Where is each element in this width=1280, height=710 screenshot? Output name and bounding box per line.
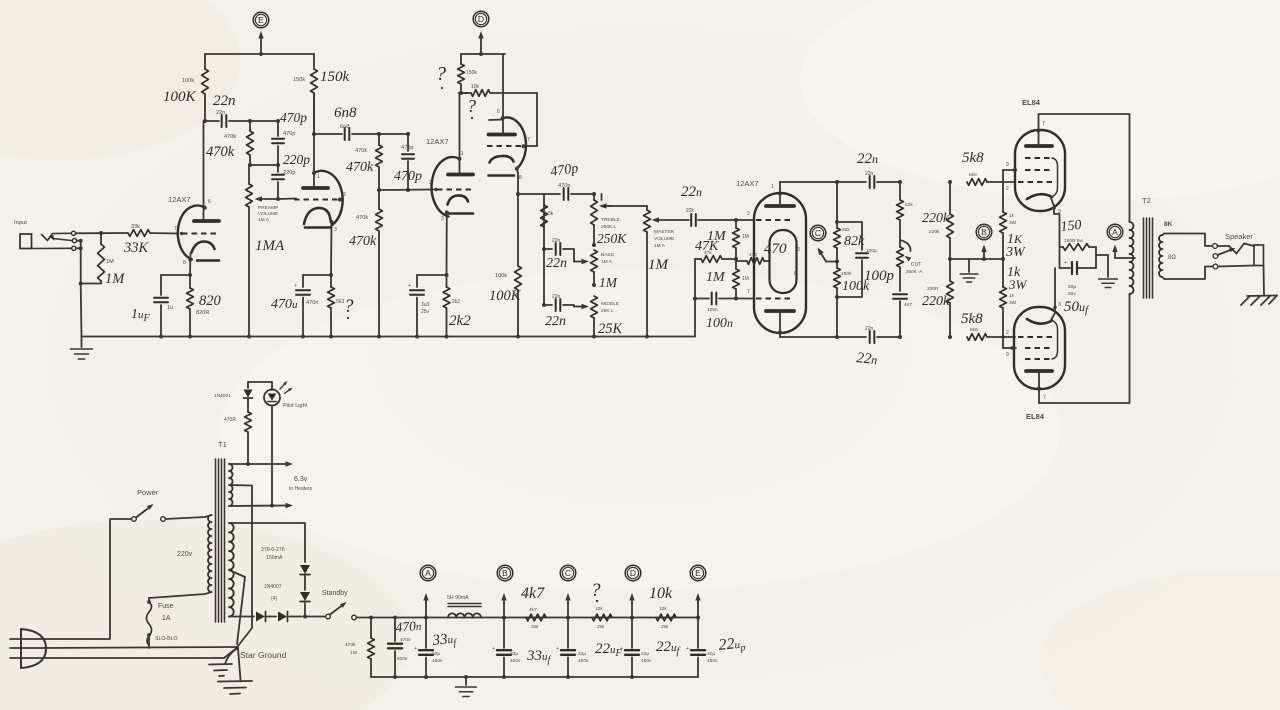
svg-text:5k: 5k <box>548 211 554 217</box>
label 220k printed <box>929 229 940 235</box>
tube V4 plate bottom <box>766 311 794 337</box>
tube V4 envelope <box>754 193 806 333</box>
resistor 10k V3b grid <box>461 90 537 146</box>
svg-text:22n: 22n <box>865 171 874 177</box>
label 100k printed2 <box>495 273 507 279</box>
node E filter circle <box>690 565 706 581</box>
mains plug <box>10 629 46 668</box>
ground symbol input <box>71 241 93 359</box>
svg-text:4k7: 4k7 <box>529 607 537 613</box>
label bass printed <box>601 252 614 265</box>
tube EL84 bottom grid <box>1006 330 1052 337</box>
label 5k8 handwritten2 <box>961 311 983 327</box>
label 6n8 handwritten <box>334 105 357 121</box>
potentiometer bass 1M <box>591 250 598 285</box>
svg-text:+: + <box>1064 260 1067 266</box>
svg-text:3W: 3W <box>1009 220 1017 226</box>
svg-text:B: B <box>981 227 987 237</box>
svg-text:12AX7: 12AX7 <box>168 195 191 204</box>
label 1k printed <box>1009 213 1017 226</box>
resistor 1M PI grid1 <box>733 220 740 259</box>
label 1MA handwritten <box>255 238 285 254</box>
label 470p handwritten <box>280 110 307 125</box>
label 470p handwritten2 <box>394 169 422 184</box>
label 47K handwritten <box>695 239 719 254</box>
svg-text:22n: 22n <box>681 184 702 200</box>
node A circle <box>1107 224 1123 240</box>
svg-text:1A: 1A <box>162 615 171 622</box>
svg-text:150: 150 <box>1060 218 1082 235</box>
wire HT top tap <box>229 523 305 562</box>
speaker jack contacts <box>1213 244 1218 269</box>
svg-text:470p: 470p <box>394 169 422 184</box>
tube EL84 top suppressor <box>1025 158 1058 197</box>
label 4n7 printed <box>904 302 912 308</box>
switch standby <box>326 602 357 620</box>
label 22k printed <box>905 202 913 208</box>
tube V1 cathode <box>188 242 219 276</box>
svg-text:100k: 100k <box>841 271 852 277</box>
capacitor 1uF cathode V1 <box>154 275 168 339</box>
label 470n printed <box>294 283 318 306</box>
svg-text:+: + <box>408 283 411 289</box>
tube EL84 bottom envelope <box>1014 307 1065 389</box>
svg-text:Star Ground: Star Ground <box>240 650 287 660</box>
resistor 470k bleeder <box>368 616 375 678</box>
svg-text:1: 1 <box>461 151 464 157</box>
tube EL84 bottom suppressor <box>1025 321 1058 360</box>
tube V3a plate <box>448 93 473 175</box>
svg-text:470k: 470k <box>346 160 374 175</box>
label 22n handwritten <box>213 93 236 109</box>
label 33uF handwritten <box>431 631 458 652</box>
label 2k2 printed <box>452 299 460 305</box>
label 1M handwritten <box>105 271 125 287</box>
label middle printed <box>601 301 619 314</box>
svg-text:82k: 82k <box>842 227 850 233</box>
label 220k printed2 <box>927 286 939 292</box>
tube V2 grid <box>294 198 342 202</box>
label 22n printed4 <box>686 208 695 214</box>
label 25K handwritten <box>598 321 624 337</box>
label 22n printed3 <box>552 294 561 300</box>
transformer T1 label <box>218 440 227 449</box>
potentiometer master 1M <box>644 206 651 339</box>
tube V4 shared cathode <box>770 230 797 293</box>
svg-text:6n8: 6n8 <box>334 105 357 121</box>
svg-text:6.3v: 6.3v <box>294 476 308 483</box>
svg-text:450v: 450v <box>510 658 521 664</box>
svg-text:22µ: 22µ <box>641 651 649 657</box>
transformer T1 HT winding <box>229 523 234 616</box>
svg-text:470k: 470k <box>206 144 235 160</box>
svg-text:100K: 100K <box>489 288 522 304</box>
svg-text:1k: 1k <box>1009 213 1015 219</box>
node V1 plate junction <box>203 119 207 123</box>
svg-text:100k: 100k <box>182 78 194 84</box>
label 8ohm printed <box>1168 255 1176 261</box>
label master printed <box>654 229 675 249</box>
label 22n printed2 <box>552 238 561 244</box>
tube V3b pins <box>497 109 530 181</box>
resistor 10k filter1 <box>592 614 612 621</box>
svg-text:3W: 3W <box>1008 277 1028 292</box>
label 50u printed <box>1068 284 1076 297</box>
svg-text:50v: 50v <box>1068 291 1076 297</box>
svg-text:470k: 470k <box>355 148 367 154</box>
tube V3b grid <box>487 144 526 148</box>
svg-text:?: ? <box>436 63 446 85</box>
label power printed <box>137 488 159 497</box>
svg-text:470p: 470p <box>283 131 295 137</box>
label 470k handwritten3 <box>349 234 377 249</box>
tube V4 plate top <box>766 182 794 206</box>
svg-text:22n: 22n <box>216 110 225 116</box>
svg-text:150mA: 150mA <box>266 555 283 561</box>
svg-text:22n: 22n <box>552 294 561 300</box>
node V1 cathode <box>161 273 192 277</box>
node 220k top <box>948 180 952 214</box>
svg-text:25K: 25K <box>598 321 624 337</box>
svg-text:5k8: 5k8 <box>969 172 977 178</box>
svg-text:+: + <box>294 283 297 289</box>
svg-text:470n: 470n <box>395 618 422 635</box>
svg-text:1M: 1M <box>742 234 749 240</box>
transformer T1 primary <box>205 515 212 594</box>
label 82k printed <box>842 227 850 233</box>
svg-text:VOLUME: VOLUME <box>258 211 278 217</box>
speaker plug <box>1218 244 1264 267</box>
node 220k mid <box>948 257 1003 261</box>
speaker jack switch <box>1218 248 1236 255</box>
svg-text:1M A: 1M A <box>654 243 666 249</box>
pot treble wiper <box>599 194 612 209</box>
tube EL84 top envelope <box>1015 130 1065 211</box>
wire B+ rail <box>357 617 699 619</box>
label 100n handwritten <box>706 316 733 331</box>
label 22n handwritten2 <box>546 256 567 271</box>
svg-text:T1: T1 <box>218 440 227 449</box>
tube V4 grid bottom <box>756 298 790 300</box>
svg-text:470k: 470k <box>349 234 377 249</box>
label 1M handwritten PI1 <box>707 229 727 244</box>
svg-text:22k: 22k <box>905 202 913 208</box>
resistor 150k V3 <box>458 54 465 93</box>
capacitor 470p slope <box>402 134 414 190</box>
svg-text:22n: 22n <box>856 350 879 368</box>
tube EL84 bottom plate <box>1026 371 1052 403</box>
resistor 33K <box>128 230 150 237</box>
svg-text:22µ: 22µ <box>707 651 715 657</box>
label preamp volume printed <box>258 205 278 223</box>
wire 47k-100n left leg <box>693 259 697 337</box>
tube EL84 bottom screen <box>1006 348 1052 358</box>
label fuse printed <box>155 603 178 642</box>
node V4 grid1 <box>734 218 754 222</box>
wire secondary bottom <box>1163 267 1213 280</box>
svg-text:10k: 10k <box>659 606 667 612</box>
svg-text:+: + <box>686 646 689 652</box>
fuse 1A <box>147 600 152 648</box>
node B filter circle <box>497 565 513 581</box>
svg-text:2: 2 <box>343 192 346 198</box>
svg-text:2: 2 <box>1006 186 1009 192</box>
svg-text:100p: 100p <box>864 268 895 284</box>
pilot lamp <box>248 381 293 505</box>
svg-text:220k: 220k <box>929 229 940 235</box>
label pilot light printed <box>283 403 308 409</box>
label 10k printed2 <box>659 606 669 630</box>
label 5k6 printed <box>548 211 554 217</box>
label 276 printed <box>261 547 285 561</box>
transformer T1 heater winding <box>229 464 233 506</box>
svg-text:CUT: CUT <box>911 262 921 268</box>
label 6n8 printed <box>340 124 349 130</box>
svg-text:33µ: 33µ <box>432 651 440 657</box>
svg-text:22n: 22n <box>857 151 878 167</box>
svg-text:2W: 2W <box>597 624 605 630</box>
resistor 47k tail <box>695 256 736 263</box>
pot master wiper arrow <box>652 217 690 222</box>
wire V3a grid <box>377 188 434 192</box>
wire D rail <box>461 52 505 56</box>
wire E rail <box>205 52 314 56</box>
svg-text:Standby: Standby <box>322 590 348 597</box>
svg-text:3W: 3W <box>1009 300 1017 306</box>
label 150 handwritten <box>1060 218 1082 235</box>
resistor 1M PI grid2 <box>733 259 740 299</box>
wire to tone stack <box>518 193 560 195</box>
svg-text:630v: 630v <box>397 656 408 662</box>
resistor 470k interstage <box>247 121 254 165</box>
svg-text:C: C <box>565 568 571 578</box>
svg-text:SLO-BLO: SLO-BLO <box>155 636 178 642</box>
svg-text:2: 2 <box>429 180 432 186</box>
label 470p handwritten3 <box>549 161 579 180</box>
node bass junction <box>592 243 596 247</box>
svg-text:22n: 22n <box>552 238 561 244</box>
wire secondary top <box>1163 234 1213 247</box>
label 1N4001 printed <box>214 393 231 399</box>
label 470u handwritten <box>271 297 298 312</box>
capacitor 50uF <box>1060 243 1097 274</box>
mark dot <box>347 317 349 319</box>
tube EL84 bottom cathode <box>1027 268 1061 324</box>
label 33uF handwritten2 <box>526 648 552 666</box>
svg-text:2: 2 <box>747 211 750 217</box>
wire cathode follower line <box>516 192 520 266</box>
svg-text:9: 9 <box>1006 162 1009 168</box>
svg-text:250K: 250K <box>597 231 627 246</box>
node B arrow <box>981 245 986 262</box>
svg-text:MASTER: MASTER <box>654 229 675 235</box>
label ? handwritten <box>344 296 354 317</box>
diode 1N4001 <box>244 382 253 412</box>
tube V3b cathode <box>489 156 519 194</box>
svg-text:?: ? <box>344 296 354 317</box>
svg-text:220k: 220k <box>922 211 950 226</box>
svg-text:?: ? <box>591 580 601 601</box>
svg-text:3: 3 <box>441 216 444 222</box>
wire input to grid <box>76 231 128 235</box>
svg-text:8Ω: 8Ω <box>1168 255 1176 261</box>
resistor 1M input <box>79 233 105 286</box>
label 4k7 printed <box>529 607 539 630</box>
resistor 100k fb <box>834 268 841 288</box>
node C filter <box>565 593 570 620</box>
transformer T1 core <box>216 459 225 622</box>
svg-text:BASS: BASS <box>601 252 614 258</box>
capacitor 100n <box>695 293 736 305</box>
wire plate rail bottom <box>1039 294 1130 403</box>
svg-text:22n: 22n <box>546 256 567 271</box>
svg-text:3u3: 3u3 <box>421 302 430 308</box>
switch power <box>132 504 166 521</box>
resistor 220k top <box>947 214 954 259</box>
wire HT bottom tap <box>229 616 254 618</box>
capacitor 22n master <box>691 214 736 226</box>
svg-text:Power: Power <box>137 488 159 497</box>
svg-text:470: 470 <box>764 241 787 257</box>
node A filter circle <box>420 565 436 581</box>
resistor 22k cut <box>897 200 904 247</box>
svg-text:1M A: 1M A <box>601 259 613 265</box>
svg-text:450v: 450v <box>578 658 589 664</box>
svg-text:220p: 220p <box>283 152 310 167</box>
svg-text:E: E <box>258 15 264 25</box>
svg-text:10k: 10k <box>595 606 603 612</box>
resistor 470k slope <box>376 134 383 190</box>
label 1M handwritten PI2 <box>706 270 726 285</box>
svg-text:150R 5w: 150R 5w <box>1064 238 1083 244</box>
resistor 5k8 top <box>967 179 1015 186</box>
svg-text:22n: 22n <box>545 314 566 329</box>
svg-text:12AX7: 12AX7 <box>736 179 759 188</box>
resistor 820 cathode V1 <box>187 275 194 339</box>
wire primary to fuse <box>149 594 205 602</box>
svg-text:220k: 220k <box>922 294 950 309</box>
svg-text:1M: 1M <box>106 259 114 265</box>
label 100K handwritten <box>163 89 197 105</box>
wire PI top rail <box>780 180 866 184</box>
label 100n printed <box>707 307 718 313</box>
node E arrow <box>258 31 263 54</box>
node V2 cathode <box>303 273 333 277</box>
node PI grid2 <box>734 297 754 301</box>
svg-text:2k2: 2k2 <box>449 313 471 329</box>
svg-text:150k: 150k <box>466 70 477 76</box>
label 33u printed <box>432 651 443 664</box>
input jack <box>20 231 81 250</box>
label 22n handwritten4 <box>681 184 702 200</box>
label 220p handwritten <box>283 152 310 167</box>
capacitor 470p treble <box>564 188 594 200</box>
svg-text:1M: 1M <box>599 275 618 290</box>
svg-text:450v: 450v <box>432 658 443 664</box>
label choke printed <box>447 595 469 601</box>
svg-text:22µ: 22µ <box>578 651 586 657</box>
node middle junction <box>592 283 596 287</box>
svg-text:Speaker: Speaker <box>1225 232 1253 241</box>
svg-text:6: 6 <box>208 199 211 205</box>
svg-text:1: 1 <box>317 174 320 180</box>
label ? handwritten2 <box>436 63 446 89</box>
tube V2 cathode <box>304 208 334 275</box>
tube EL84 top cathode <box>1027 194 1061 243</box>
label 33K handwritten <box>123 240 150 256</box>
svg-text:2k2: 2k2 <box>452 299 460 305</box>
wire main ground bus <box>82 336 695 338</box>
node E circle <box>253 12 269 28</box>
pot preamp wiper arrow <box>255 196 281 201</box>
label 250K handwritten <box>597 231 627 246</box>
svg-text:100k: 100k <box>495 273 507 279</box>
node D arrow <box>478 31 483 54</box>
svg-text:33µ: 33µ <box>510 651 518 657</box>
svg-text:450v: 450v <box>641 658 652 664</box>
tube V1 label <box>168 195 211 266</box>
label 470k printed2 <box>355 148 367 154</box>
node PI tail junction <box>734 257 738 261</box>
node 150k bottom <box>459 91 469 95</box>
tube V1 plate <box>194 121 219 221</box>
label 22n handwritten5 <box>857 151 878 167</box>
label cut printed <box>906 262 924 274</box>
label 560 printed <box>336 299 345 305</box>
svg-text:3: 3 <box>334 227 337 233</box>
wire PI bottom rail <box>780 335 866 339</box>
capacitor 4n7 <box>893 267 907 339</box>
tube EL84 top plate <box>1026 114 1052 146</box>
svg-text:?: ? <box>467 96 476 116</box>
capacitor 470p bright <box>272 121 284 165</box>
svg-text:250K L: 250K L <box>601 224 617 230</box>
label 82k handwritten <box>844 234 865 249</box>
wire heater tap top <box>229 461 293 466</box>
svg-text:(4): (4) <box>271 596 277 602</box>
wire heater CT <box>229 485 252 646</box>
label 5k8 printed2 <box>970 327 978 333</box>
transformer T2 primary <box>1130 222 1134 294</box>
label treble printed <box>601 217 620 230</box>
label 22n handwritten3 <box>545 314 566 329</box>
tube V3a 12AX7 envelope <box>432 157 460 216</box>
svg-text:100n: 100n <box>707 307 718 313</box>
svg-text:150k: 150k <box>293 77 305 83</box>
svg-text:Pilot Light: Pilot Light <box>283 403 308 409</box>
svg-text:820: 820 <box>199 293 222 309</box>
label 470k handwritten2 <box>346 160 374 175</box>
label 10k printed <box>595 606 605 630</box>
svg-text:22k: 22k <box>686 208 695 214</box>
svg-text:+: + <box>414 646 417 652</box>
svg-text:+: + <box>492 646 495 652</box>
capacitor 33uF A <box>414 618 433 680</box>
label 470 handwritten <box>764 241 787 257</box>
svg-text:1N4007: 1N4007 <box>264 584 282 590</box>
label 100p printed <box>866 248 877 254</box>
svg-text:50µ: 50µ <box>1068 284 1076 290</box>
label 22n printed5 <box>865 171 874 177</box>
svg-text:to Heaters: to Heaters <box>289 486 313 492</box>
resistor 5k8 bottom <box>967 334 1015 341</box>
tube V1 12AX7a envelope <box>178 206 206 260</box>
tube V2 pins <box>317 174 346 233</box>
svg-text:220R: 220R <box>927 286 939 292</box>
label 150k handwritten <box>320 69 350 85</box>
label 1u printed <box>167 305 173 311</box>
svg-text:1M A: 1M A <box>258 217 270 223</box>
